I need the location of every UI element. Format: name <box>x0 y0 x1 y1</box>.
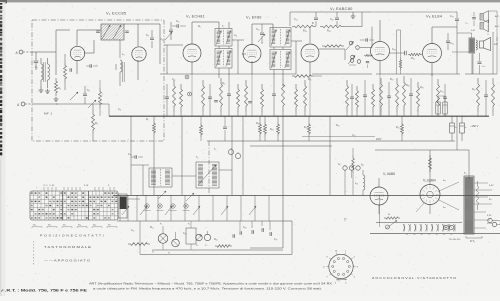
component R44 above bus <box>492 78 495 112</box>
svg-text:ART (Amplificazioni Radio Tele: ART (Amplificazioni Radio Televisione – … <box>89 281 333 285</box>
svg-text:T₁: T₁ <box>464 171 467 175</box>
svg-text:V₇ 6AB8: V₇ 6AB8 <box>383 172 395 176</box>
resistor R31 below bus <box>308 116 310 122</box>
volume cap C47 <box>365 38 367 42</box>
junction terminal circles above bus <box>185 75 189 79</box>
wire rail to V4 <box>344 26 362 28</box>
IF transformer MF3 can top <box>270 28 291 48</box>
oscillator coil L3 <box>119 40 121 58</box>
keyboard wire x227 <box>226 195 228 221</box>
component R19 above bus <box>346 80 349 112</box>
resistor R34 on x400 <box>400 30 402 58</box>
switch wafer contact circles <box>145 204 149 208</box>
svg-text:C₅₂: C₅₂ <box>450 42 454 45</box>
phono jack circles <box>343 166 347 170</box>
component R39 above bus <box>417 82 420 112</box>
keyboard wire x158 <box>157 195 159 221</box>
tube V6 EL84 <box>423 44 442 63</box>
svg-text:6,3V: 6,3V <box>487 215 492 217</box>
extra keyboard caps <box>239 231 241 235</box>
component C15 above bus <box>166 84 168 97</box>
svg-text:C₆: C₆ <box>87 89 90 92</box>
wire V3 plate to IF2 <box>252 23 273 25</box>
svg-text:C₄₆: C₄₆ <box>330 19 334 21</box>
svg-text:C₇₄: C₇₄ <box>183 233 186 235</box>
mains plug <box>488 218 492 222</box>
component R16 above bus <box>304 80 307 112</box>
tie verticals at far right <box>456 27 458 74</box>
small caps row in FM box <box>69 68 71 72</box>
triode V1a <box>70 46 84 60</box>
tube cathode lead x380 <box>379 74 381 116</box>
tube cathode lead x432 <box>431 74 433 116</box>
second distribution wire <box>250 145 332 147</box>
svg-text:V₆ EL84: V₆ EL84 <box>426 14 443 19</box>
resistor R9 below bus on x154 <box>153 116 155 121</box>
dash-dot MF screen vertical <box>208 141 210 195</box>
output transformer T2 <box>469 38 475 53</box>
wires around coil boxes <box>131 164 149 166</box>
svg-text:C₂₄: C₂₄ <box>256 29 260 31</box>
resistor R28 below bus <box>259 116 261 122</box>
IF transformer MF2 can bottom <box>215 49 232 69</box>
resistor R29 below bus <box>264 116 266 122</box>
component R21 above bus <box>372 84 375 112</box>
noval socket viewed from below <box>329 254 353 278</box>
component R7 above bus <box>173 80 176 112</box>
wire A2 feed <box>56 103 85 105</box>
wire vertical x182 <box>181 116 183 195</box>
tube V7 <box>370 187 388 205</box>
keyboard bus horizontal <box>117 220 292 222</box>
keyboard wire x255 <box>254 195 256 221</box>
keyboard switch arrows <box>122 206 129 215</box>
wire speaker returns <box>489 10 498 12</box>
component C42 above bus <box>444 84 446 97</box>
trimmer near V3 <box>260 32 264 34</box>
wire V4 plate right <box>319 48 345 50</box>
svg-text:220V: 220V <box>487 223 493 225</box>
bus B+ main horizontal <box>109 115 489 117</box>
tube cathode lead x310 <box>309 74 311 116</box>
component R20 above bus <box>356 86 359 112</box>
resistor R30 below bus <box>277 116 279 122</box>
svg-text:C₉: C₉ <box>146 34 149 37</box>
svg-text:A₅: A₅ <box>338 163 341 166</box>
svg-text:S₃: S₃ <box>421 234 423 236</box>
component R15 above bus <box>295 84 298 112</box>
wire V2 plate to IF1 <box>192 21 219 23</box>
wire plate V1a to tuning gang <box>77 29 101 31</box>
test point circles <box>228 149 233 154</box>
component R40 above bus <box>437 79 440 112</box>
component C34 above bus <box>364 80 366 95</box>
svg-text:a onde ultracorte in FM. Media: a onde ultracorte in FM. Media frequenza… <box>93 286 322 290</box>
component R37 above bus <box>396 78 399 112</box>
speaker A.P. <box>480 41 484 48</box>
lower distribution wire <box>207 140 455 142</box>
contact table grid <box>30 191 118 220</box>
svg-text:~150 V: ~150 V <box>470 124 479 128</box>
small caps near can leads <box>214 100 218 102</box>
wire IF2 to V4 grid <box>291 40 302 42</box>
wire T2 feed <box>457 32 472 34</box>
tube cathode lead x192 <box>191 74 193 116</box>
resistor R42 above jacks <box>352 148 354 155</box>
component R9 above bus <box>202 80 205 112</box>
tone potentiometer P2 <box>172 239 180 247</box>
wire osc top <box>124 23 160 25</box>
feed resistor to V8 <box>429 155 432 172</box>
component R11 above bus <box>237 84 240 112</box>
svg-text:C₄₅: C₄₅ <box>294 19 298 21</box>
wire vertical x396 <box>396 30 398 74</box>
svg-text:C₁₅: C₁₅ <box>172 79 175 81</box>
switch arrows mid <box>158 191 166 199</box>
extra switch contacts <box>350 59 354 63</box>
svg-text:R₃₅: R₃₅ <box>411 57 415 60</box>
svg-text:55₃: 55₃ <box>48 225 51 227</box>
selector bracket <box>466 236 482 238</box>
svg-text:C₁₃: C₁₃ <box>176 21 179 23</box>
component R8 above bus <box>180 84 183 112</box>
T1 right taps <box>474 182 488 184</box>
svg-text:R₅: R₅ <box>146 119 149 121</box>
resistor R25 horizontal under V4 <box>292 75 314 78</box>
component R43 above bus <box>477 78 480 112</box>
coupling cap to V6 <box>404 51 406 55</box>
resistor R15 below bus <box>200 116 202 123</box>
svg-text:S₆: S₆ <box>443 234 445 236</box>
svg-text:L₃: L₃ <box>122 53 124 56</box>
resistor R3 below FM box <box>92 104 94 110</box>
svg-text:S₅: S₅ <box>436 234 438 236</box>
small pot circles <box>196 234 202 240</box>
svg-text:6a₀: 6a₀ <box>443 180 446 182</box>
resistor R24 horizontal <box>320 25 344 28</box>
component R12 above bus <box>245 80 248 112</box>
wire grid line V1a <box>55 30 57 75</box>
svg-text:R₂₅: R₂₅ <box>308 79 312 81</box>
component box in keyboard <box>186 228 196 244</box>
diode switch contacts near V4 <box>349 41 353 45</box>
svg-text:R₂₄: R₂₄ <box>327 30 331 33</box>
svg-text:R₃₇: R₃₇ <box>390 79 394 81</box>
tube V4 EABC80 <box>301 44 319 62</box>
svg-text:R₅₅: R₅₅ <box>150 227 154 229</box>
svg-text:C₁₂: C₁₂ <box>160 39 163 41</box>
input capacitor C1 <box>35 52 37 60</box>
svg-text:O.C. O.M.: O.C. O.M. <box>43 185 55 187</box>
svg-text:55₅: 55₅ <box>78 225 81 227</box>
wire vertical x330 <box>329 116 331 195</box>
svg-text:V₄ EABC80: V₄ EABC80 <box>330 6 353 11</box>
svg-text:F₁: F₁ <box>188 224 190 226</box>
svg-text:C₅₀: C₅₀ <box>450 15 454 18</box>
mains bottom rail <box>370 233 500 235</box>
ground under antenna coils <box>40 88 42 90</box>
IF can leads <box>218 46 220 49</box>
component C20 above bus <box>228 78 230 94</box>
svg-text:R₁₀: R₁₀ <box>222 83 225 85</box>
component C44 above bus <box>485 80 487 95</box>
svg-text:55₇: 55₇ <box>108 225 111 227</box>
component C40 above bus <box>410 78 412 94</box>
tone caps <box>251 230 253 234</box>
wire vertical x131 <box>130 116 132 195</box>
mains selector line <box>376 222 462 224</box>
svg-text:P₃: P₃ <box>196 245 198 247</box>
keyboard wire x120 <box>119 195 121 221</box>
wire table to keyboard <box>127 198 140 200</box>
svg-text:C₇₆: C₇₆ <box>243 227 246 229</box>
svg-text:A.P.: A.P. <box>494 43 499 46</box>
T1 secondary winding <box>476 181 479 210</box>
IF can leads 2 <box>273 47 275 50</box>
tweeter speaker 1 <box>480 14 483 21</box>
svg-text:P₂: P₂ <box>168 253 170 255</box>
cap C36 small <box>366 61 369 63</box>
svg-text:6,3V: 6,3V <box>489 185 494 187</box>
component C33 above bus <box>351 84 353 97</box>
cap C9 right of V1b <box>150 37 154 39</box>
wire detector top rail <box>290 11 370 13</box>
svg-text:T₅: T₅ <box>214 149 216 151</box>
component R10 above bus <box>220 78 223 112</box>
electrolytic C57 above bus <box>437 96 439 102</box>
antenna terminal A1 <box>19 50 23 54</box>
svg-text:55₂: 55₂ <box>33 225 36 227</box>
selector lamp circles <box>444 225 448 229</box>
tone coupling box <box>196 162 219 188</box>
left binding strip <box>0 2 2 160</box>
svg-text:55₆: 55₆ <box>93 225 96 227</box>
svg-text:R₃₉: R₃₉ <box>420 87 424 89</box>
svg-text:C₁: C₁ <box>35 66 38 69</box>
keyboard wire x137 <box>136 195 138 221</box>
cap C61 <box>134 155 136 159</box>
wire vertical feed to keyboard <box>282 116 284 248</box>
svg-text:S₇: S₇ <box>450 234 452 236</box>
svg-text:F M: F M <box>84 185 88 187</box>
wire FM out to bus <box>108 104 110 116</box>
AM aerial trimmer cluster <box>169 29 173 31</box>
component R22 above bus <box>380 78 383 112</box>
cap C22 below bus <box>224 116 226 126</box>
resistor R2 in FM box <box>55 78 58 96</box>
svg-text:V₈ EM84: V₈ EM84 <box>423 179 436 183</box>
svg-text:P₄: P₄ <box>205 245 207 247</box>
table header ticks <box>43 187 45 191</box>
svg-text:R₃₂: R₃₂ <box>336 125 340 127</box>
svg-text:A.R.T. : Modd. 756, 756 F e 75: A.R.T. : Modd. 756, 756 F e 756 FE <box>1 288 88 293</box>
tweeter speaker 2 <box>480 23 483 30</box>
svg-text:C₂₁: C₂₁ <box>234 35 238 37</box>
wire corner step <box>250 247 283 249</box>
svg-text:MF 1: MF 1 <box>44 112 52 116</box>
component C38 above bus <box>388 82 390 96</box>
tube V8 magic eye <box>420 185 440 205</box>
trimmer caps beside gang <box>96 30 100 32</box>
mains on-off contact <box>386 225 390 229</box>
svg-text:T₆: T₆ <box>196 157 198 159</box>
FM box bottom components <box>83 93 87 95</box>
svg-text:110·160·220: 110·160·220 <box>449 239 461 241</box>
svg-text:S₂: S₂ <box>413 234 415 236</box>
svg-text:S₄: S₄ <box>428 234 430 236</box>
resistor R29 small <box>364 55 373 57</box>
svg-text:C₃₅: C₃₅ <box>352 135 356 137</box>
component C18 above bus <box>209 84 211 97</box>
resistor R45 below bus <box>401 116 403 122</box>
svg-text:P O S I Z I O N E C O N T: P O S I Z I O N E C O N T A T T I <box>40 234 104 238</box>
tube V3 EF89 <box>243 45 261 63</box>
svg-text:V₁ ECC85: V₁ ECC85 <box>106 11 127 16</box>
wire into V2 grid <box>164 44 183 46</box>
tone resistor horizontal <box>128 243 150 246</box>
FM tuner enclosure (dash-dot box) <box>32 20 164 141</box>
svg-text:C₅₃: C₅₃ <box>482 66 485 68</box>
IF transformer MF3 can bottom <box>270 50 291 70</box>
resistor R23 horizontal <box>292 25 316 28</box>
svg-text:C₆₁: C₆₁ <box>128 153 132 156</box>
svg-text:F₀: F₀ <box>160 224 162 226</box>
svg-text:S₁: S₁ <box>406 234 408 236</box>
svg-text:T₂: T₂ <box>222 26 224 28</box>
svg-text:R₃₀: R₃₀ <box>304 127 308 129</box>
cap C52 at V6 <box>446 40 450 42</box>
detector rail y136 <box>302 136 375 138</box>
svg-text:R₂: R₂ <box>58 87 61 90</box>
svg-text:220V: 220V <box>376 139 382 141</box>
svg-text:R₅₆: R₅₆ <box>214 239 218 241</box>
power transformer T1 <box>464 176 474 234</box>
ratio detector coil box <box>149 168 172 187</box>
svg-text:C₅₆: C₅₆ <box>440 91 444 93</box>
antenna coil L1 <box>40 58 42 64</box>
svg-text:C₄₇: C₄₇ <box>366 55 370 57</box>
electrolytic C58 above bus <box>444 96 446 102</box>
keyboard wire x171 <box>170 195 172 221</box>
svg-text:R₆: R₆ <box>198 26 201 28</box>
diagonal pin wires V8 <box>438 182 459 192</box>
vertical to output section <box>456 116 458 150</box>
cap C53 below speaker <box>478 61 482 63</box>
chassis bus 2 <box>113 194 500 196</box>
svg-text:R₂₉: R₂₉ <box>270 129 274 131</box>
varicap trimmer arrows <box>70 92 78 100</box>
antenna terminal A2 <box>21 102 25 106</box>
triode V1b <box>132 47 146 61</box>
wire vertical x243 <box>242 116 244 195</box>
svg-text:R₃: R₃ <box>95 122 98 125</box>
svg-text:6a₁: 6a₁ <box>443 207 446 209</box>
svg-text:R₄₂: R₄₂ <box>472 89 476 91</box>
svg-text:C₄₈: C₄₈ <box>392 48 396 51</box>
table right extension <box>118 194 127 218</box>
jack leads to bus2 <box>344 170 346 195</box>
svg-text:Z O C C O L O N O V A L :: Z O C C O L O N O V A L : V I S T A D A … <box>372 276 457 280</box>
table group dividers <box>62 191 64 220</box>
keyboard wire x241 <box>240 195 242 221</box>
left margin shading <box>2 2 5 296</box>
svg-text:R₂₆: R₂₆ <box>282 85 286 87</box>
top page edge bar <box>0 0 500 2</box>
keyboard wire x128 <box>127 195 129 221</box>
keyboard wire x185 <box>184 195 186 221</box>
svg-text:L₂₂: L₂₂ <box>355 182 358 185</box>
keyboard wire x146 <box>145 195 147 221</box>
component R13 above bus <box>261 84 264 112</box>
keyboard wire x269 <box>268 195 270 221</box>
detector caps row <box>314 17 318 19</box>
dropper resistor above selector <box>384 217 400 219</box>
IF transformer MF2 can top <box>215 29 232 47</box>
wire y150 right section <box>375 149 469 151</box>
svg-text:C₇₇: C₇₇ <box>274 239 277 241</box>
wire V6 plate to output transformer <box>432 26 457 28</box>
grid resistor R35 <box>408 53 422 55</box>
svg-text:P₁: P₁ <box>152 252 154 254</box>
tube V2 ECH81 <box>183 44 201 62</box>
resistor R4 in FM box <box>64 62 67 82</box>
keyboard lower horizontals <box>152 249 283 251</box>
wire IF1 to V3 <box>232 39 244 41</box>
component R38 above bus <box>403 76 406 112</box>
ground detector <box>352 14 354 16</box>
FM tuning gang (hatched) <box>101 24 124 40</box>
component R14 above bus <box>282 78 285 112</box>
svg-text:R₂₈: R₂₈ <box>256 123 260 125</box>
volume potentiometer P1 <box>158 234 168 244</box>
horizontal tie wire above bus <box>160 73 296 75</box>
svg-text:R₄₁: R₄₁ <box>396 127 400 129</box>
keyboard wire x213 <box>212 195 214 221</box>
V8 leads <box>429 150 431 185</box>
pickup coil <box>362 170 364 175</box>
svg-text:R.T.₁: R.T.₁ <box>470 240 475 243</box>
tube cathode lead x252 <box>251 74 253 116</box>
component C26 above bus <box>273 78 275 94</box>
svg-text:R₃₈: R₃₈ <box>406 85 410 87</box>
svg-text:V₂ ECH81: V₂ ECH81 <box>186 15 205 19</box>
svg-text:T A S T O N O R M A L E: T A S T O N O R M A L E <box>44 245 91 249</box>
resistor R27 at V4 plate <box>322 45 344 47</box>
tweeter feed caps <box>472 17 476 19</box>
svg-text:Rₜ: Rₜ <box>388 214 391 216</box>
svg-text:C₇₂: C₇₂ <box>131 230 134 232</box>
antenna coil L2 <box>47 58 49 64</box>
cap C50 top <box>455 18 459 20</box>
keyboard wire x199 <box>198 195 200 221</box>
tube V5 EABC80 triode <box>371 42 390 61</box>
svg-text:55₄: 55₄ <box>63 225 66 227</box>
svg-text:V₃ EF89: V₃ EF89 <box>246 16 262 20</box>
electrolytic C55 C56 <box>451 116 453 123</box>
voltage selector arcs <box>403 224 404 231</box>
wire vertical x232 <box>231 116 233 195</box>
svg-text:C₁₁: C₁₁ <box>118 109 121 111</box>
